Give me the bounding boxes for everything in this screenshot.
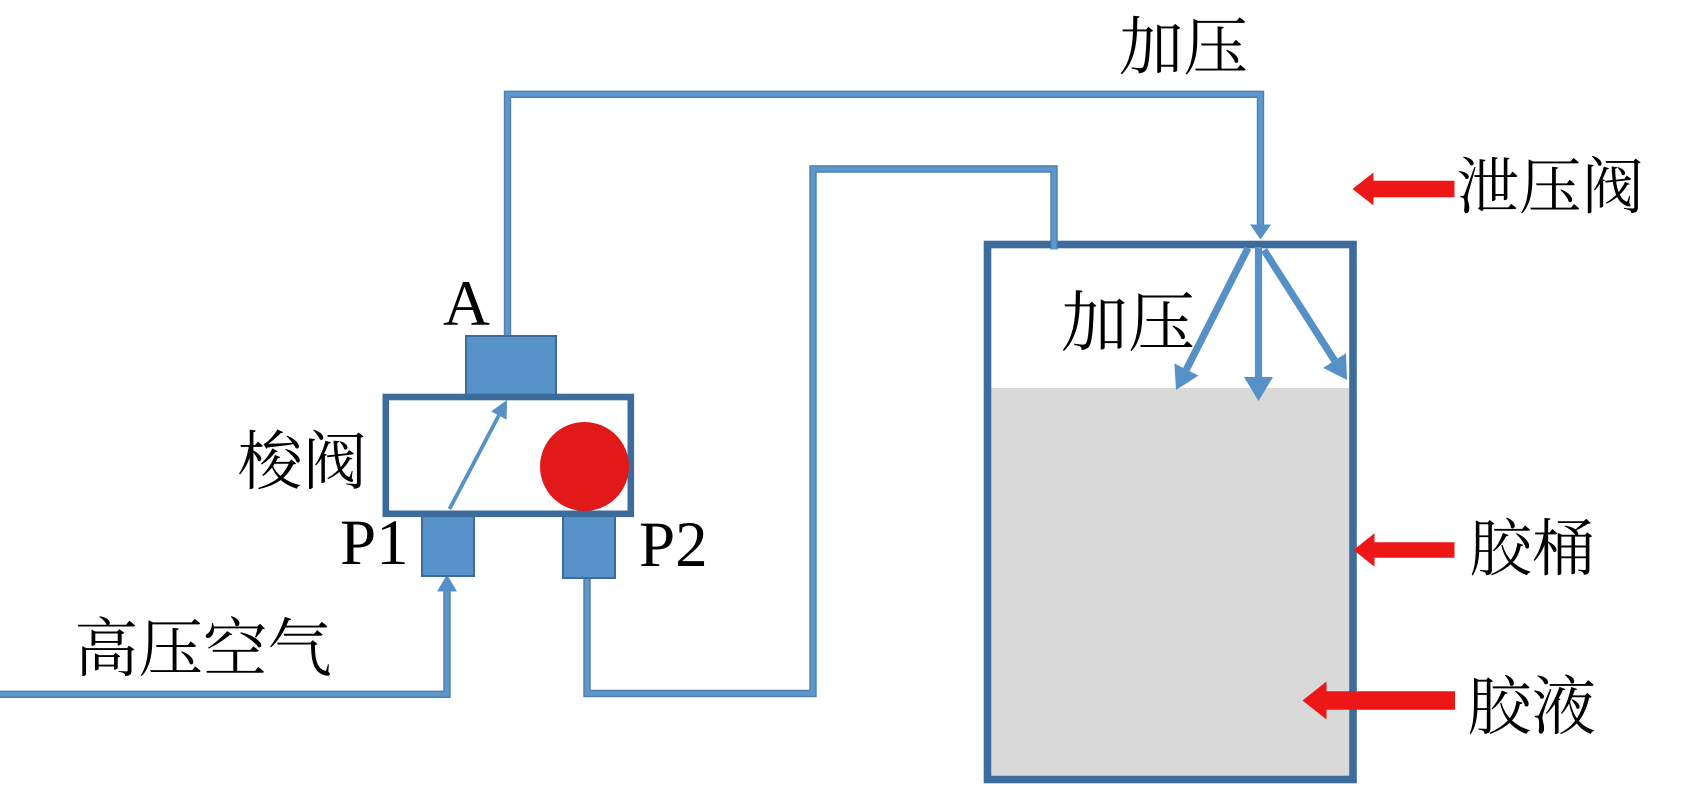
pressurize spray arrow right: [1264, 250, 1335, 361]
arrowhead into P1: [437, 575, 457, 592]
flow arrow inside valve from P1 to A: [450, 416, 499, 510]
text label: xieyafa (relief valve): [1459, 157, 1518, 214]
wire: pipe from valve port A up and over to tank top: [508, 94, 1261, 336]
svg-text:A: A: [443, 268, 490, 340]
red arrow pointing to relief valve position: [1353, 173, 1455, 206]
text label: jiaya (pressurize) in tank: [1063, 290, 1125, 351]
text label: jiaoye (glue liquid): [1470, 675, 1530, 734]
text label: gaoyakongqi (high pressure air): [78, 616, 136, 676]
svg-text:P2: P2: [639, 509, 708, 581]
text label: jiaya (pressurize) top: [1121, 16, 1181, 75]
wire: high pressure air supply pipe to P1: [0, 592, 447, 695]
shuttle valve port A: [466, 336, 556, 397]
pressurize spray arrow left: [1186, 248, 1248, 370]
arrowhead into tank top: [1250, 225, 1271, 240]
tank border: [988, 245, 1354, 780]
red arrow pointing to glue barrel: [1354, 533, 1455, 567]
shuttle valve port P1: [422, 514, 474, 576]
red arrow pointing to glue liquid: [1303, 682, 1456, 720]
text label: jiaotong (glue barrel): [1472, 518, 1531, 576]
glue liquid (gray fill): [991, 388, 1349, 776]
shuttle valve port P2: [563, 514, 615, 578]
text label: suofa (shuttle valve): [239, 429, 300, 489]
wire: pipe from valve port P2 down, right and up over into tank: [587, 169, 1054, 694]
shuttle ball (red circle): [540, 422, 629, 511]
glue barrel tank body: [988, 245, 1354, 780]
svg-text:P1: P1: [340, 507, 409, 579]
shuttle valve body: [386, 397, 631, 514]
pressurize spray arrow middle: [1255, 247, 1262, 377]
